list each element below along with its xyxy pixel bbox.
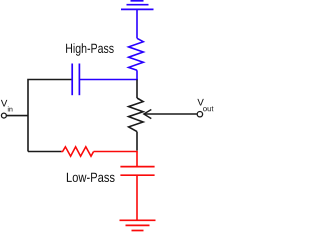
wire: bottom branch black segment — [28, 151, 62, 153]
ground (red, bottom) — [120, 220, 156, 230]
label High-Pass — [66, 43, 114, 56]
capacitor (red, low-pass shunt) — [120, 167, 154, 176]
resistor (red, low-pass series) — [61, 147, 94, 156]
terminal V_out — [197, 99, 213, 117]
terminal V_in — [1, 100, 13, 118]
ground (blue, top) — [121, 1, 154, 10]
wire: node B to low-pass capacitor (red) — [136, 152, 138, 167]
wire: node A to potentiometer top (black) — [136, 80, 138, 99]
label Low-Pass — [67, 173, 115, 182]
capacitor (blue, high-pass series) — [72, 64, 79, 96]
potentiometer wiper arrow — [144, 110, 197, 119]
wire: resistor bottom to node A — [136, 70, 138, 79]
wire: top ground to high-pass shunt resistor — [136, 10, 138, 39]
wire: V_in top branch (black) — [28, 80, 72, 152]
wire: V_in terminal to left rail — [7, 115, 28, 117]
wire: capacitor to bottom ground (red) — [136, 175, 138, 220]
wire: resistor to node B (red) — [94, 151, 138, 153]
wire: capacitor to node A (blue) — [79, 79, 137, 81]
potentiometer (black) — [129, 98, 144, 132]
resistor (blue, high-pass shunt) — [129, 38, 144, 70]
wire: potentiometer bottom to node B (black) — [136, 132, 138, 151]
